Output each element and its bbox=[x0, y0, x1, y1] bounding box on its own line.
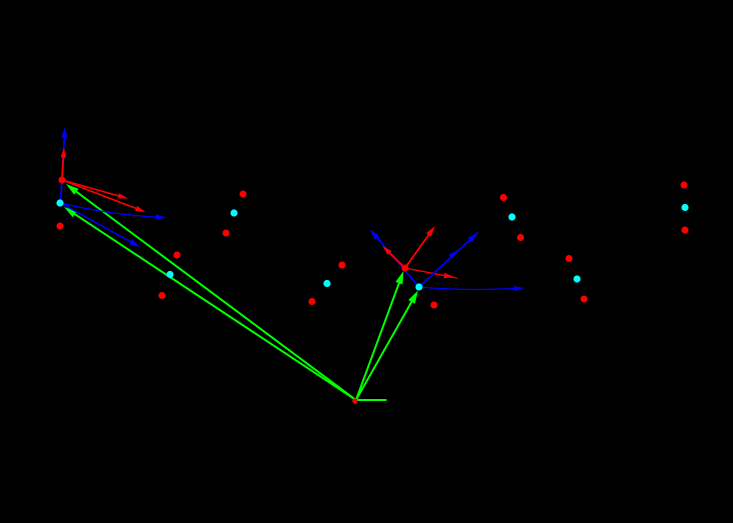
G6 red point top bbox=[500, 194, 507, 201]
middle red short arrow up-left bbox=[383, 246, 406, 268]
middle blue mid arrowhead on up-right arrow bbox=[449, 251, 457, 259]
G2 red point top bbox=[240, 191, 247, 198]
G5 middle camera red point bottom bbox=[431, 302, 438, 309]
green ray origin to middle camera cyan point bbox=[356, 291, 418, 401]
G7 red point bottom bbox=[581, 296, 588, 303]
G3 cyan point middle bbox=[166, 271, 173, 278]
middle blue arrow up-left from cyan point bbox=[370, 230, 419, 288]
G8 red point bottom bbox=[682, 227, 689, 234]
G1 left camera red point top bbox=[59, 177, 66, 184]
G6 red point bottom bbox=[517, 234, 524, 241]
green ray origin to middle camera red point bbox=[356, 271, 404, 400]
G6 cyan point middle bbox=[508, 213, 515, 220]
G3 red point top bbox=[174, 252, 181, 259]
origin red marker bbox=[352, 398, 357, 403]
G4 red point bottom bbox=[309, 298, 316, 305]
middle red arrow right from red point bbox=[405, 268, 455, 278]
G2 red point bottom bbox=[223, 230, 230, 237]
G1 left camera red point bottom bbox=[57, 223, 64, 230]
G3 red point bottom bbox=[159, 292, 166, 299]
middle red axis arrow up-right bbox=[405, 226, 435, 268]
G7 cyan point middle bbox=[573, 275, 580, 282]
G7 red point top bbox=[566, 255, 573, 262]
left blue diagonal arrow from cyan point bbox=[61, 203, 141, 247]
left red z-axis arrow (red frame up) bbox=[61, 148, 67, 181]
left blue horizontal arrow from cyan point bbox=[61, 203, 167, 220]
origin green x-axis segment bbox=[356, 399, 387, 401]
G5 middle camera cyan point middle bbox=[415, 283, 422, 290]
left red x-axis arrow long bbox=[62, 180, 146, 212]
G8 red point top bbox=[681, 182, 688, 189]
green ray origin to left camera cyan point bbox=[64, 207, 356, 400]
left red x-axis arrow short bbox=[62, 180, 128, 199]
green ray origin to left camera red point bbox=[66, 184, 356, 400]
G4 red point top bbox=[339, 262, 346, 269]
middle blue arrow right from cyan point bbox=[419, 286, 523, 291]
left blue z-axis arrow (cyan frame up) bbox=[61, 127, 68, 203]
G4 cyan point middle bbox=[323, 280, 330, 287]
G1 left camera cyan point middle bbox=[56, 199, 63, 206]
G2 cyan point middle bbox=[230, 209, 237, 216]
middle red arrow thin tip continuation bbox=[449, 277, 458, 279]
middle blue arrow up-right from cyan point bbox=[419, 233, 478, 288]
G5 middle camera red point top bbox=[402, 265, 409, 272]
G8 cyan point middle bbox=[681, 204, 688, 211]
